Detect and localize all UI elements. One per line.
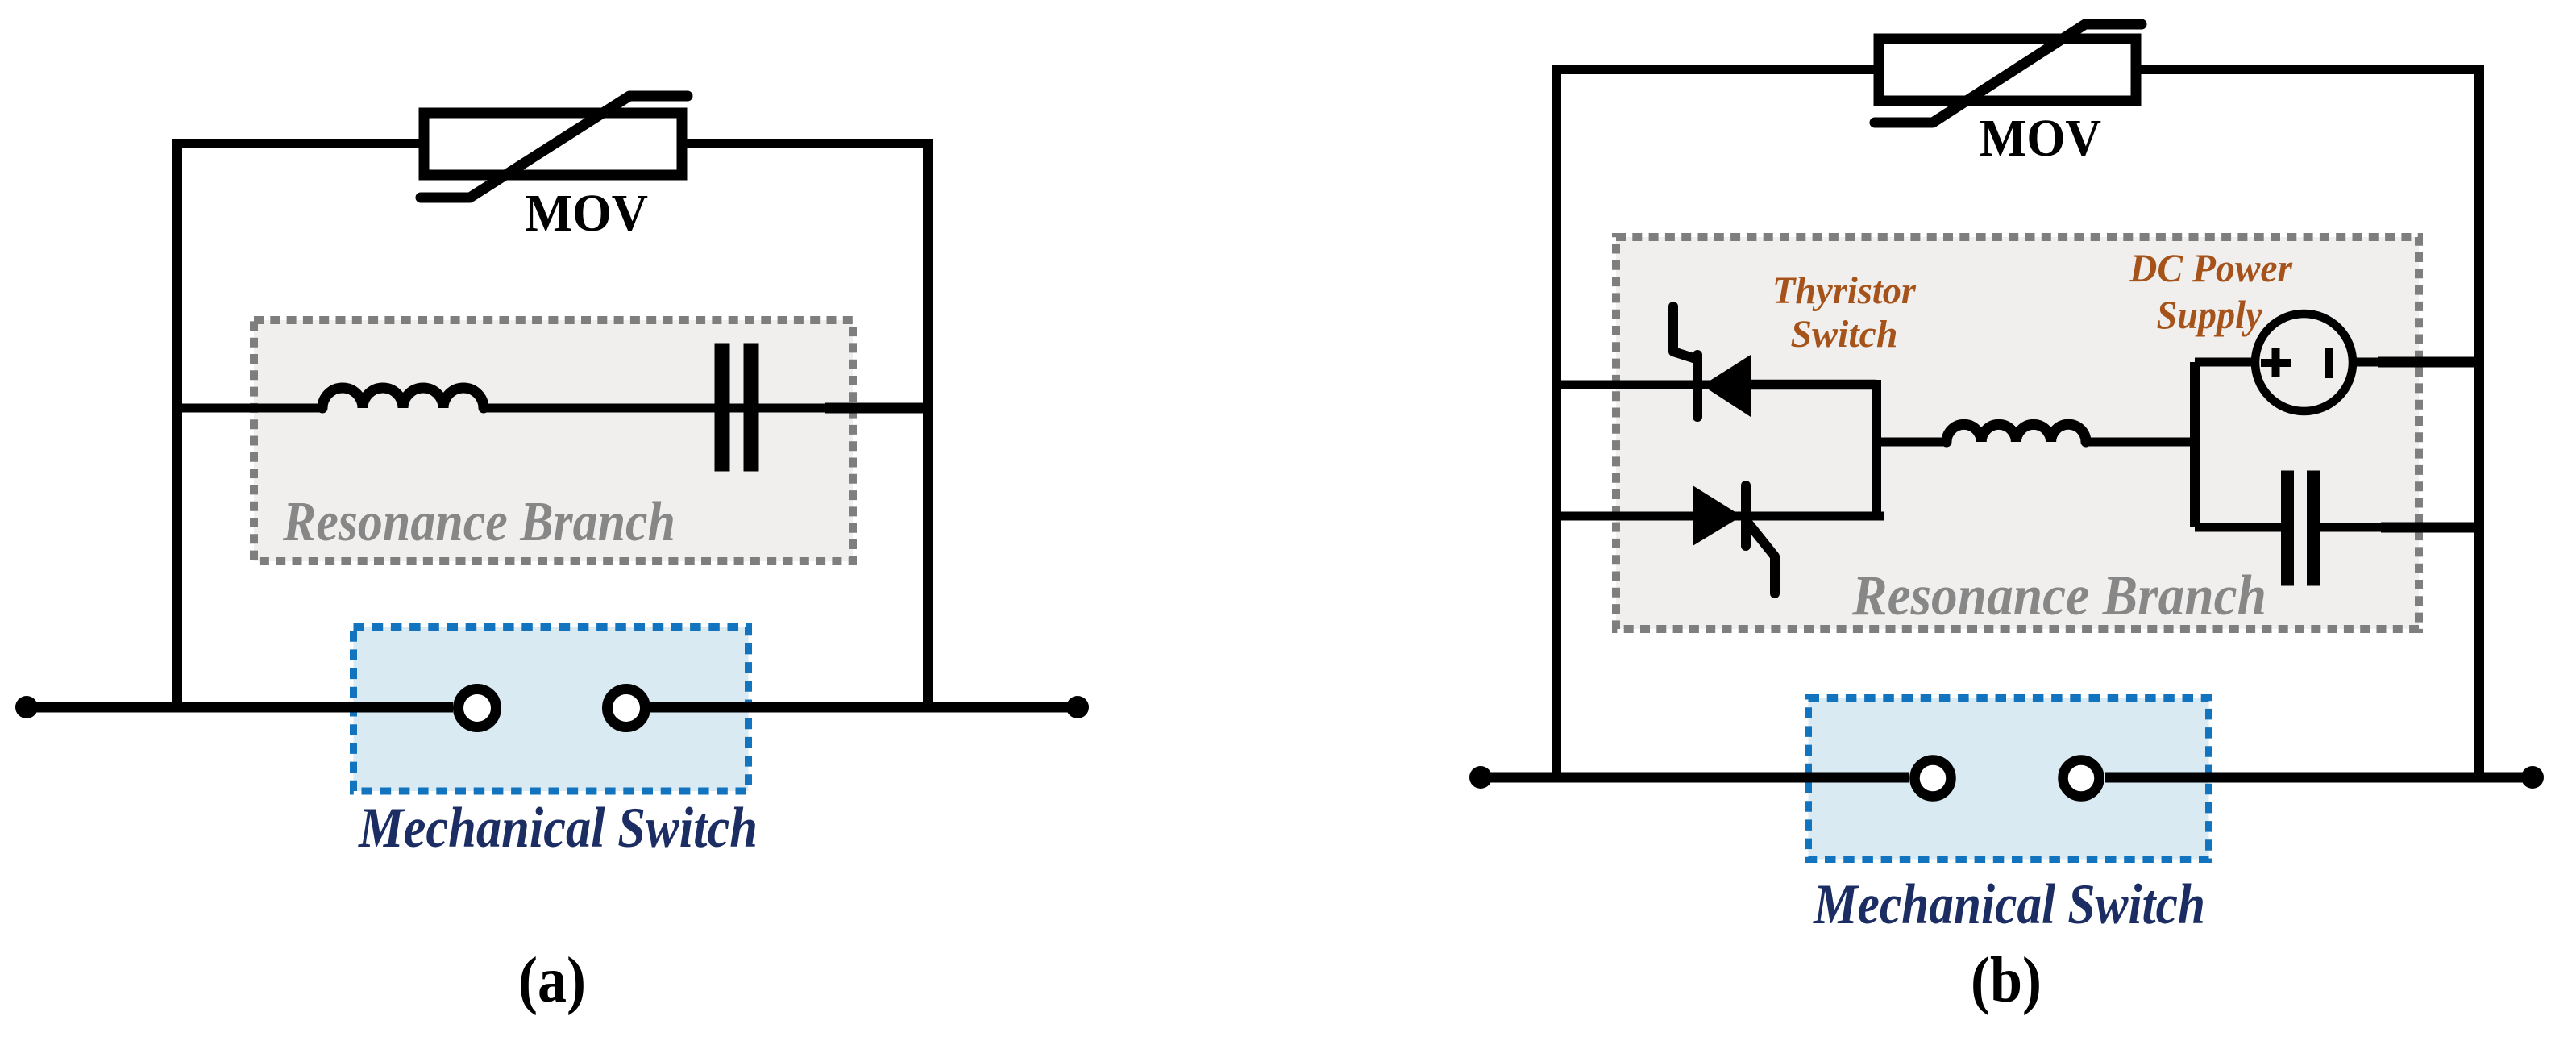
svg-text:Resonance Branch: Resonance Branch: [1851, 564, 2266, 627]
svg-text:(b): (b): [1971, 945, 2042, 1016]
svg-text:Mechanical Switch: Mechanical Switch: [1813, 873, 2205, 936]
svg-text:Resonance Branch: Resonance Branch: [282, 491, 675, 553]
svg-text:Supply: Supply: [2157, 292, 2263, 337]
svg-text:Thyristor: Thyristor: [1772, 269, 1917, 312]
svg-text:MOV: MOV: [525, 184, 648, 243]
svg-text:Mechanical Switch: Mechanical Switch: [358, 797, 758, 860]
svg-text:Switch: Switch: [1791, 313, 1898, 356]
svg-text:MOV: MOV: [1980, 109, 2101, 168]
svg-text:DC Power: DC Power: [2129, 245, 2292, 290]
svg-text:(a): (a): [518, 945, 586, 1016]
